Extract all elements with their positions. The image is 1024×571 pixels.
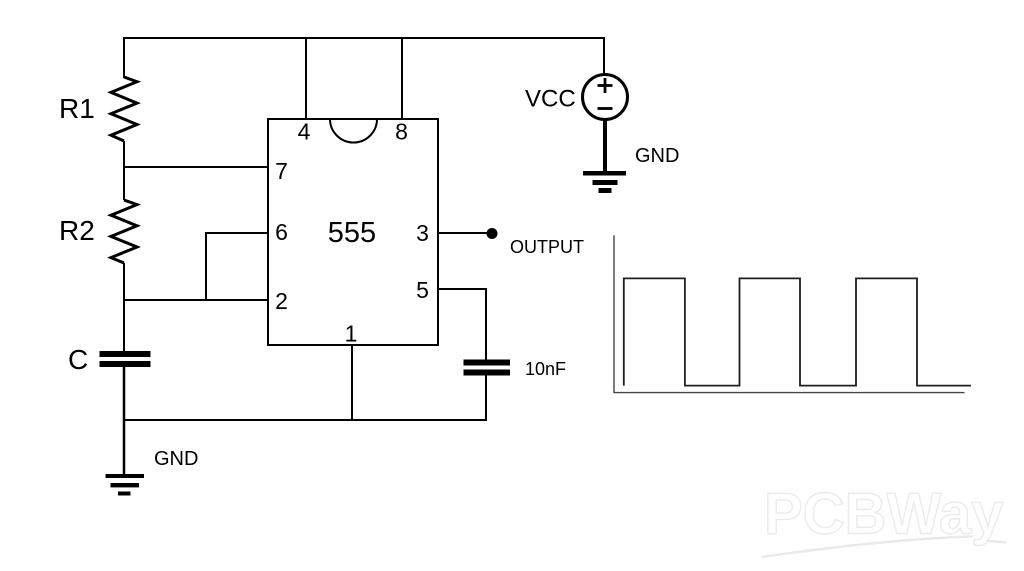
- wire C bottom lead: [123, 367, 126, 475]
- U1 notch: [330, 119, 377, 142]
- svg-text:4: 4: [298, 119, 311, 145]
- svg-text:8: 8: [395, 119, 408, 145]
- svg-text:R1: R1: [59, 93, 95, 124]
- svg-text:C: C: [68, 344, 88, 375]
- wire VCC to ground: [603, 120, 607, 173]
- wire pin 7: [123, 166, 268, 168]
- ground (left): [106, 474, 145, 496]
- pin 3 wire: [438, 232, 488, 234]
- svg-text:555: 555: [328, 217, 376, 249]
- wire R2 to capacitor C: [123, 263, 125, 351]
- svg-text:GND: GND: [635, 145, 679, 167]
- pin 8 wire: [401, 37, 403, 119]
- svg-text:GND: GND: [154, 448, 198, 470]
- node OUTPUT dot: [487, 228, 498, 239]
- waveform axes: [614, 235, 965, 392]
- wire R1 to R2: [123, 141, 125, 200]
- capacitor 10nF: [464, 360, 511, 376]
- svg-text:6: 6: [275, 219, 288, 245]
- pin 5 wire: [438, 289, 486, 360]
- wire bottom rail: [123, 419, 487, 421]
- op-amp U1 555 body: [268, 119, 438, 345]
- resistor R1: [111, 77, 137, 141]
- VCC plus sign: [598, 78, 613, 93]
- VCC minus sign: [598, 107, 613, 110]
- svg-text:R2: R2: [59, 215, 95, 246]
- svg-text:5: 5: [416, 277, 429, 303]
- svg-text:7: 7: [275, 158, 288, 184]
- svg-text:1: 1: [345, 321, 358, 347]
- pin 4 wire: [305, 37, 307, 119]
- svg-text:OUTPUT: OUTPUT: [510, 237, 584, 257]
- svg-text:VCC: VCC: [525, 86, 576, 113]
- svg-text:3: 3: [416, 220, 429, 246]
- watermark PCBWay: [762, 482, 1006, 558]
- wire pin 6 branch: [206, 233, 268, 300]
- waveform square wave: [624, 278, 971, 385]
- ground (VCC): [583, 171, 626, 193]
- resistor R2: [111, 200, 137, 263]
- wire VCC drop: [603, 37, 605, 75]
- wire R1 top lead: [123, 37, 125, 78]
- source VCC circle: [583, 75, 628, 120]
- capacitor C: [100, 351, 151, 367]
- svg-text:2: 2: [275, 288, 288, 314]
- wire 10nF bottom lead: [485, 375, 487, 421]
- wire top rail: [123, 37, 605, 39]
- svg-text:10nF: 10nF: [525, 359, 566, 379]
- wire pin 2: [123, 299, 268, 301]
- pin 1 wire: [351, 345, 353, 421]
